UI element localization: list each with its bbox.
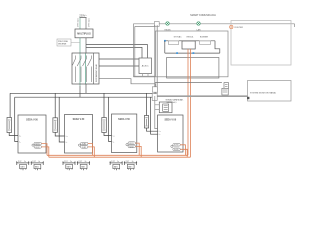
svg-text:XLR1: XLR1: [174, 145, 179, 147]
wire charger DC stubs: [142, 74, 144, 77]
pv battery string S4: [77, 161, 90, 170]
wire CAN INV3 stubs: [136, 143, 140, 155]
wire CAN chain horizontal (orange double): [47, 154, 188, 156]
connector XLR INV2 b: [81, 146, 89, 149]
wire control bus bottom: [165, 52, 220, 54]
svg-text:BAT1: BAT1: [114, 166, 118, 169]
wire to modem M1: [155, 82, 222, 84]
wire bus drop INV3 plus: [103, 93, 105, 117]
inverter INV3 box: [112, 114, 137, 153]
wire stub comm to B1 a: [155, 104, 160, 106]
wire panel to charger left top: [99, 58, 139, 60]
breaker panel F1: [72, 53, 99, 84]
svg-text:ROZVADZAC RHA1: ROZVADZAC RHA1: [95, 63, 98, 82]
pv battery string S6: [124, 161, 137, 170]
wire DC bus plus: [10, 92, 152, 94]
wire stub comm to B1 b: [155, 109, 160, 111]
fuse F13: [102, 118, 107, 133]
inner enclosure U3a: [167, 58, 219, 79]
connector XLR INV3 b: [128, 145, 136, 148]
svg-text:XLR2: XLR2: [129, 146, 134, 148]
wire panel to charger left bottom: [99, 65, 139, 67]
svg-text:2x: 2x: [70, 161, 72, 163]
wire DC link bus (thick gray): [133, 76, 154, 78]
connector circles XLR: [32, 144, 34, 146]
svg-text:CYKY 3x2,5: CYKY 3x2,5: [88, 18, 90, 27]
connector XLR INV1 a: [34, 142, 42, 145]
svg-text:2x: 2x: [24, 161, 26, 163]
charger U2 AC/DC box: [139, 58, 152, 74]
wire N grid feed: [85, 18, 87, 30]
svg-text:ROUTER: ROUTER: [235, 27, 244, 29]
svg-text:XLR1: XLR1: [129, 143, 134, 145]
svg-text:230V~: 230V~: [79, 13, 87, 17]
svg-text:STYKAC: STYKAC: [174, 35, 183, 38]
svg-text:ELEMER: ELEMER: [200, 36, 209, 38]
wire bus drop INV3 minus: [109, 97, 112, 141]
node blue dot A: [164, 40, 166, 42]
relay K1 box: [168, 41, 178, 45]
modem M1 GSM: [224, 83, 229, 89]
svg-text:SYSTEM MONITOROVANIA: SYSTEM MONITOROVANIA: [250, 91, 276, 94]
junction box J2b: [152, 87, 157, 92]
svg-text:2x: 2x: [85, 161, 87, 163]
svg-text:SEDA V-50: SEDA V-50: [73, 118, 85, 121]
wire comm into INV4: [155, 96, 158, 129]
wire control bus right step: [215, 41, 220, 53]
wire control bus left drop: [164, 41, 166, 53]
wire CAN INV2 stubs: [88, 144, 93, 156]
svg-text:XLR1: XLR1: [35, 144, 40, 146]
svg-text:2x: 2x: [132, 161, 134, 163]
svg-text:BAT1: BAT1: [67, 166, 71, 169]
node blue dot B: [176, 52, 178, 54]
junction box J1 on comm line: [154, 22, 159, 27]
svg-text:MULTIPLUS: MULTIPLUS: [77, 33, 91, 36]
wire AC branch to charger top B: [86, 47, 142, 58]
wire L1 grid feed (green): [79, 18, 81, 30]
fuse F12: [53, 118, 58, 133]
inverter INV4 box: [158, 115, 183, 152]
wire bus drop INV2 plus: [54, 93, 56, 118]
wire leader from note N1: [71, 42, 80, 44]
wire comm line top: [133, 23, 294, 25]
wire bus drop INV2 minus: [59, 97, 64, 142]
pv battery string S1: [16, 161, 29, 170]
svg-text:REGUL: REGUL: [187, 36, 195, 38]
wire monitoring bus (thick gray): [155, 95, 248, 97]
svg-text:P-5T: P-5T: [79, 161, 82, 163]
svg-text:XLR2: XLR2: [82, 147, 87, 149]
breaker Q1: [75, 56, 77, 59]
svg-text:2x: 2x: [38, 161, 40, 163]
connector XLR INV4 b: [173, 148, 181, 151]
svg-text:CYKY 3x2,5: CYKY 3x2,5: [77, 18, 79, 27]
wire bus drop INV1 minus: [15, 97, 18, 141]
pv battery string S5: [109, 161, 122, 170]
fuse F14: [144, 116, 148, 129]
svg-text:L+: L+: [159, 131, 161, 133]
connector XLR INV4 a: [173, 144, 181, 147]
svg-text:SEDA V-50: SEDA V-50: [164, 119, 176, 122]
inverter INV2 box: [65, 115, 93, 154]
svg-text:XLR2: XLR2: [35, 147, 40, 149]
svg-text:P-5T: P-5T: [111, 161, 114, 163]
wire CAN bus vertical (orange, double): [187, 49, 189, 155]
building boundary (light rect): [231, 21, 291, 66]
junction box J2: [152, 94, 157, 101]
wire bus drop INV4 minus: [151, 97, 158, 134]
svg-text:SEDA V-50: SEDA V-50: [118, 118, 130, 121]
wire bus drop INV1 plus: [9, 93, 11, 117]
breaker Q4: [90, 56, 92, 59]
fuse F11: [7, 118, 12, 133]
control cabinet U3 box: [156, 31, 229, 77]
breaker Q3: [85, 56, 87, 59]
wire DC bus minus: [15, 96, 153, 98]
svg-text:AC/DC: AC/DC: [142, 65, 149, 68]
svg-text:L+: L+: [66, 136, 68, 138]
wire control bus top: [165, 40, 215, 42]
node 230V supply tick: [80, 17, 87, 19]
battery sense box B1: [159, 102, 172, 113]
connector into U4: [247, 97, 249, 99]
breaker panel F1 divider: [93, 53, 95, 84]
svg-text:BAT1: BAT1: [35, 166, 39, 169]
svg-text:VEDENIE: VEDENIE: [58, 44, 67, 46]
wire CAN INV1 stubs: [42, 144, 48, 156]
pv battery string S2: [31, 161, 44, 170]
wire comm vertical A: [154, 25, 156, 96]
svg-text:XLR2: XLR2: [174, 149, 179, 151]
wire N down from U1: [85, 38, 87, 54]
svg-text:L+: L+: [19, 135, 21, 137]
connector RS485 (green): [166, 22, 169, 25]
breaker Q2: [80, 56, 82, 59]
svg-text:BAT1: BAT1: [128, 166, 132, 169]
node blue dot C: [193, 52, 195, 54]
svg-text:P-5T: P-5T: [126, 161, 129, 163]
inverter U1 MULTIPLUS box: [75, 29, 93, 38]
wire AC branch to charger top A: [86, 45, 148, 58]
label box note N1: [57, 39, 71, 46]
svg-text:P-5T: P-5T: [32, 161, 35, 163]
wire CAN INV4 stubs: [180, 145, 185, 156]
svg-text:P-5T: P-5T: [18, 161, 21, 163]
connector internet (orange): [230, 25, 233, 28]
svg-text:SMART KOMUNIKACIA: SMART KOMUNIKACIA: [190, 14, 216, 17]
svg-text:L+: L+: [113, 135, 115, 137]
connector LAN (green): [197, 22, 200, 25]
svg-text:P-5T: P-5T: [64, 161, 67, 163]
connector XLR INV1 b: [34, 146, 42, 149]
svg-text:SEDA V-50: SEDA V-50: [26, 119, 38, 122]
wire L1 down from U1 (green): [79, 38, 81, 86]
wire comm vertical B: [156, 25, 158, 93]
pv battery string S3: [62, 161, 75, 170]
wire panel to comm junction: [99, 79, 156, 94]
relay K3 box: [200, 41, 211, 45]
svg-text:2x: 2x: [117, 161, 119, 163]
svg-text:KABEL 2x0,5: KABEL 2x0,5: [167, 101, 177, 104]
inverter INV1 box: [18, 115, 46, 153]
svg-text:BAT1: BAT1: [81, 166, 85, 169]
connector XLR INV3 a: [128, 142, 136, 145]
connector XLR INV2 a: [81, 142, 89, 145]
svg-text:BAT1: BAT1: [21, 166, 25, 169]
svg-text:XLR1: XLR1: [82, 144, 87, 146]
wire bus drop INV4 plus: [146, 93, 148, 115]
relay K2 box: [182, 41, 195, 49]
monitoring box U4: [248, 81, 292, 102]
